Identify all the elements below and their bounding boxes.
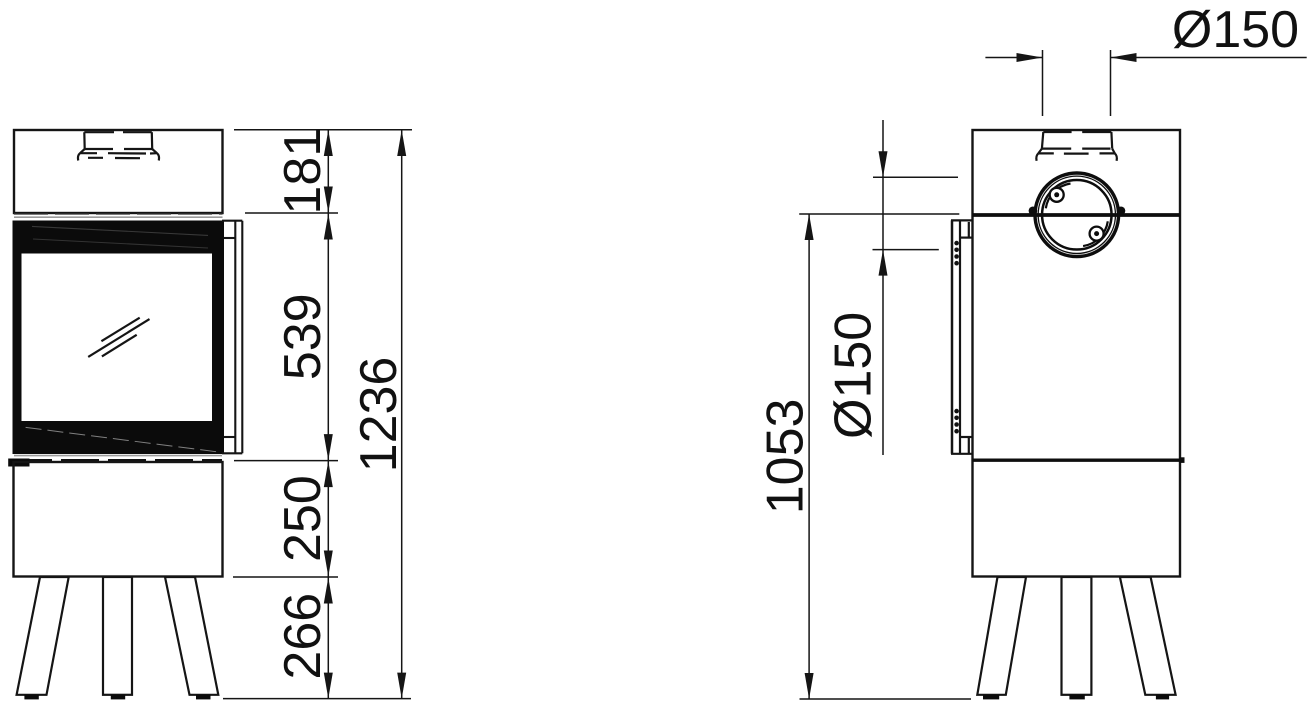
svg-text:181: 181 xyxy=(274,128,332,215)
dimension line 1053 xyxy=(808,214,810,699)
front door hinge strip xyxy=(222,221,242,454)
side ring keyhole upper xyxy=(1046,184,1071,209)
front door bottom stripes xyxy=(14,456,222,461)
front air lever tab xyxy=(8,459,29,467)
side ring keyhole lower xyxy=(1083,221,1108,246)
dimension line chain (181/539/250/266) xyxy=(327,130,329,699)
side thick joint lower xyxy=(973,457,1185,463)
svg-text:266: 266 xyxy=(274,593,332,680)
side flue collar xyxy=(1036,132,1117,161)
front door frame (black) xyxy=(13,221,225,455)
svg-text:250: 250 xyxy=(274,475,332,562)
side hinge pins top xyxy=(954,241,959,266)
side dia150 extension lower xyxy=(873,249,939,251)
extension line 181/539 xyxy=(245,212,338,214)
top dia150 dimension line xyxy=(985,57,1306,59)
front leg middle xyxy=(103,577,132,699)
side leg right xyxy=(1120,577,1176,699)
svg-text:Ø150: Ø150 xyxy=(1172,1,1299,59)
svg-text:Ø150: Ø150 xyxy=(825,312,883,439)
front lower body xyxy=(14,462,223,577)
arrows chain xyxy=(324,130,333,699)
side leg left xyxy=(977,577,1026,699)
front leg right xyxy=(165,577,218,699)
side ring tabs xyxy=(1029,207,1126,216)
svg-text:1236: 1236 xyxy=(350,357,408,473)
front door glass reflection lines xyxy=(88,318,149,357)
front leg left xyxy=(17,577,69,699)
top dia150 extension right xyxy=(1110,50,1112,116)
extension line 250/266 xyxy=(233,576,338,578)
front joint gray line xyxy=(14,214,223,217)
side leg middle xyxy=(1062,577,1092,699)
side dia150 extension upper xyxy=(873,176,958,178)
side flue outlet ring xyxy=(1036,174,1118,256)
svg-text:539: 539 xyxy=(274,293,332,380)
side door strip xyxy=(951,220,972,453)
top dia150 extension left xyxy=(1042,50,1044,116)
side hinge pins bottom xyxy=(954,409,959,434)
front view top section body xyxy=(14,130,223,213)
svg-text:1053: 1053 xyxy=(756,399,814,515)
extension line ground front xyxy=(223,698,411,700)
side dia150 dimension line xyxy=(882,120,884,455)
side extension line ground xyxy=(800,698,972,700)
side view body xyxy=(973,130,1181,577)
extension line top (y130) xyxy=(234,129,412,131)
side thick joint upper xyxy=(973,213,1181,217)
extension line 539/250 xyxy=(234,460,338,462)
side extension line 1053 top xyxy=(799,213,959,215)
dimension line 1236 xyxy=(401,130,403,699)
front flue collar xyxy=(78,132,159,160)
